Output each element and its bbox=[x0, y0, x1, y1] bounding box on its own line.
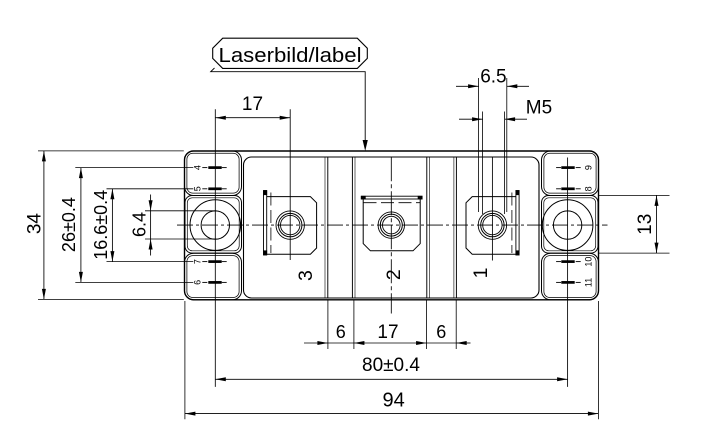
horizontal centerline bbox=[177, 224, 608, 226]
terminal 2 screw hole bbox=[378, 212, 404, 238]
leader arrow to module top bbox=[211, 68, 366, 146]
dimension M5 extension lines bbox=[482, 112, 484, 215]
module center body bbox=[244, 157, 540, 298]
dimension 6.5 extension lines bbox=[478, 78, 480, 212]
mounting neck right bbox=[542, 196, 599, 254]
mounting hole right bbox=[542, 200, 593, 251]
svg-text:6: 6 bbox=[436, 322, 446, 342]
centerline right mounting hole / dim extension bbox=[567, 158, 569, 387]
svg-text:94: 94 bbox=[382, 390, 404, 412]
module outer outline bbox=[185, 151, 599, 300]
mounting neck left bbox=[185, 196, 242, 254]
dimension 26 plus-minus 0.4 bbox=[75, 167, 193, 169]
dimension 6.4 hole diameter bbox=[145, 210, 217, 212]
svg-text:6.5: 6.5 bbox=[480, 66, 506, 87]
terminal 3 busbar bbox=[264, 191, 267, 256]
corner block top-right bbox=[542, 151, 599, 196]
label callout Laserbild/label bbox=[213, 38, 368, 68]
corner block top-left bbox=[185, 151, 242, 196]
pin 4 bbox=[202, 167, 207, 169]
terminal 1 hidden edge bbox=[511, 193, 513, 254]
pin 9 bbox=[556, 167, 561, 169]
svg-text:2: 2 bbox=[383, 269, 405, 280]
svg-text:4: 4 bbox=[192, 165, 202, 170]
corner block bottom-left bbox=[185, 253, 242, 300]
dimension 16.6 plus-minus 0.4 bbox=[107, 188, 194, 190]
dimension 80 plus-minus 0.4 bbox=[215, 378, 567, 380]
svg-text:10: 10 bbox=[583, 257, 593, 267]
svg-text:11: 11 bbox=[583, 278, 593, 287]
svg-text:17: 17 bbox=[242, 94, 263, 115]
pin 7 bbox=[202, 261, 207, 263]
bottom extension lines for 6-17-6 bbox=[327, 301, 329, 350]
svg-text:5: 5 bbox=[192, 186, 202, 191]
dimension 6 left bbox=[304, 342, 328, 344]
svg-text:1: 1 bbox=[470, 267, 492, 278]
pin 6 bbox=[202, 281, 207, 283]
dimension 6.5 bbox=[456, 85, 479, 87]
centerline left mounting hole / dim extension bbox=[214, 109, 216, 387]
svg-text:7: 7 bbox=[192, 259, 202, 264]
svg-text:Laserbild/label: Laserbild/label bbox=[219, 45, 362, 67]
dimension M5 thread bbox=[459, 118, 483, 120]
svg-text:17: 17 bbox=[377, 322, 398, 343]
dimension 34 bbox=[38, 150, 184, 152]
svg-text:34: 34 bbox=[24, 213, 45, 235]
pin 10 bbox=[556, 261, 561, 263]
centerline terminal 2 bbox=[390, 157, 392, 313]
svg-text:8: 8 bbox=[583, 186, 593, 191]
slot between section 2 and 1 bbox=[426, 157, 428, 298]
terminal 3 plate bbox=[267, 197, 317, 255]
terminal 3 hidden edge bbox=[270, 193, 272, 254]
centerline terminal 1 bbox=[491, 157, 493, 260]
terminal 1 plate bbox=[466, 197, 516, 255]
svg-text:6.4: 6.4 bbox=[130, 212, 150, 237]
dimension 17 bottom bbox=[328, 342, 456, 344]
terminal 2 hidden edge bbox=[364, 202, 421, 204]
svg-text:26±0.4: 26±0.4 bbox=[59, 197, 79, 252]
corner block bottom-right bbox=[542, 253, 599, 300]
svg-text:80±0.4: 80±0.4 bbox=[362, 355, 420, 376]
svg-text:M5: M5 bbox=[526, 98, 552, 119]
svg-text:6: 6 bbox=[192, 280, 202, 285]
mounting hole left bbox=[190, 200, 241, 251]
terminal 2 plate bbox=[363, 199, 420, 251]
centerline terminal 3 / dim extension bbox=[289, 109, 291, 260]
terminal 1 busbar bbox=[516, 191, 519, 256]
pin 8 bbox=[556, 188, 561, 190]
svg-text:16.6±0.4: 16.6±0.4 bbox=[91, 190, 111, 260]
dimension 6 right bbox=[456, 342, 470, 344]
svg-text:13: 13 bbox=[635, 214, 656, 235]
pin 5 bbox=[202, 188, 207, 190]
terminal 2 busbar bbox=[361, 196, 422, 199]
pin 11 bbox=[556, 281, 561, 283]
svg-text:3: 3 bbox=[295, 270, 317, 281]
dimension 13 right bbox=[599, 194, 670, 196]
terminal 3 screw hole bbox=[276, 211, 304, 239]
slot between section 3 and 2 bbox=[324, 157, 326, 298]
terminal 1 screw hole bbox=[478, 211, 506, 239]
dimension 17 top bbox=[215, 117, 290, 119]
svg-text:9: 9 bbox=[583, 165, 593, 170]
svg-text:6: 6 bbox=[336, 322, 346, 342]
dimension 94 bbox=[184, 301, 186, 419]
